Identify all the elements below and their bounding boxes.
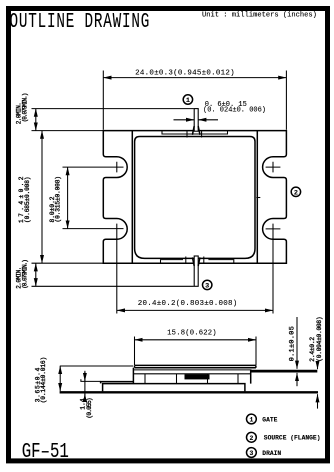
svg-text:24.0±0.3(0.945±0.012): 24.0±0.3(0.945±0.012) [135,70,235,78]
svg-text:SOURCE (FLANGE): SOURCE (FLANGE) [264,435,321,442]
svg-text:(0.094±0.008): (0.094±0.008) [316,317,323,362]
svg-text:1: 1 [186,97,190,105]
svg-text:(0.685±0.008): (0.685±0.008) [24,177,31,223]
svg-text:GF–51: GF–51 [22,439,69,464]
svg-text:2: 2 [249,435,253,442]
svg-text:(0.079MIN.): (0.079MIN.) [22,260,29,289]
svg-text:2: 2 [294,189,298,197]
svg-text:(0. 024±0. 006): (0. 024±0. 006) [203,107,266,115]
svg-text:15.8(0.622): 15.8(0.622) [167,329,217,337]
svg-text:2.4±0.2: 2.4±0.2 [309,337,316,362]
svg-text:3: 3 [249,450,253,457]
svg-text:(0.079MIN.): (0.079MIN.) [22,93,29,122]
svg-text:(0.055): (0.055) [86,398,93,418]
svg-text:(0.315±0.008): (0.315±0.008) [55,176,62,222]
svg-text:DRAIN: DRAIN [262,450,281,457]
svg-text:3: 3 [205,283,209,291]
svg-text:1: 1 [249,417,253,424]
svg-text:GATE: GATE [262,416,277,423]
svg-text:(0.144±0.016): (0.144±0.016) [40,357,47,403]
svg-text:0.1±0.05: 0.1±0.05 [288,326,296,361]
svg-text:Unit : millimeters (inches): Unit : millimeters (inches) [202,12,317,20]
svg-text:OUTLINE DRAWING: OUTLINE DRAWING [10,11,151,34]
svg-text:20.4±0.2(0.803±0.008): 20.4±0.2(0.803±0.008) [138,300,238,308]
